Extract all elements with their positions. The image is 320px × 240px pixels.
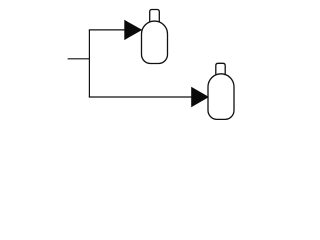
wire stub left [68, 58, 90, 60]
bottle 2 neck (bottom) [216, 63, 225, 75]
bottle 1 body (top) [142, 21, 168, 63]
bottle 1 neck (top) [150, 10, 160, 23]
wire top branch [89, 29, 126, 31]
wire vertical trunk [88, 30, 90, 97]
bottle 2 body (bottom) [208, 74, 234, 120]
arrowhead bottom [191, 87, 209, 107]
arrowhead top [124, 20, 142, 40]
wire bottom branch [89, 96, 193, 98]
